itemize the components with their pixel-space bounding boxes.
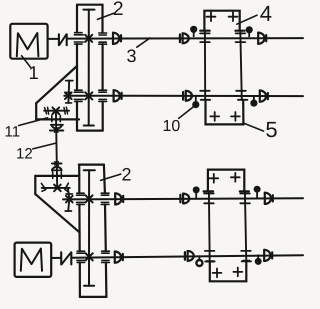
vertical shaft 12 xyxy=(56,111,57,188)
bevel joint X vertical shaft (lower) xyxy=(54,185,61,192)
bevel joint X lower shaft1st xyxy=(66,196,73,203)
motor M1 xyxy=(10,24,47,59)
label 12 xyxy=(16,143,56,162)
bevel cross shaft (upper) xyxy=(44,107,69,114)
svg-text:3: 3 xyxy=(127,46,137,66)
brake box 5 xyxy=(206,100,244,125)
pin ball B6 xyxy=(254,186,261,198)
overload clutch upper (bar + bowl + x-bar) xyxy=(50,125,63,133)
clutch C upper shaft2nd xyxy=(183,91,192,101)
brake box 4 xyxy=(200,11,244,31)
gear joint X lower gearbox shaft1st xyxy=(86,195,93,202)
bevel bracket (lower) xyxy=(35,176,79,233)
svg-text:2: 2 xyxy=(113,0,124,20)
label 3 xyxy=(127,38,151,66)
label 2 (upper) xyxy=(97,0,123,20)
gearbox 2 (upper) housing xyxy=(77,5,103,131)
coupling D lower shaft1st left xyxy=(115,193,123,204)
gear column right (upper unit) xyxy=(236,31,248,100)
wire shaft 2nd upper (output) xyxy=(64,95,303,97)
svg-text:10: 10 xyxy=(163,118,181,135)
wire motor1 shaft xyxy=(48,38,59,40)
label 10 xyxy=(163,106,195,135)
bearing upper-right wall shaft2nd xyxy=(99,90,107,101)
bearing upper-left wall shaft3 xyxy=(74,33,83,44)
svg-text:1: 1 xyxy=(29,62,39,83)
pin ball B5 xyxy=(193,186,200,197)
coupling D lower shaft2nd right xyxy=(264,250,272,261)
bearing upper-left wall shaft2nd xyxy=(74,90,83,101)
wire shaft 1st lower unit xyxy=(63,198,303,199)
coupling D upper shaft2nd right xyxy=(260,91,268,102)
wire motor2 shaft xyxy=(51,257,61,259)
svg-text:5: 5 xyxy=(265,117,277,142)
gear shaft vertical (upper gearbox center) xyxy=(83,10,94,126)
label 4 xyxy=(237,1,272,26)
gear column right (lower unit) xyxy=(240,191,251,261)
coupling D upper shaft2nd left (after gearbox) xyxy=(114,90,122,101)
coupling K1 xyxy=(59,34,67,45)
gear column left (lower unit) xyxy=(204,191,215,261)
gear column left (upper unit) xyxy=(200,31,210,100)
pin ball B1 xyxy=(190,26,197,37)
label 2 (lower) xyxy=(101,165,132,185)
svg-text:12: 12 xyxy=(16,145,33,162)
coupling D upper shaft3 right xyxy=(258,33,266,44)
coupling D lower shaft2nd left xyxy=(115,252,123,263)
bearing lower-right wall shaft1st xyxy=(101,193,109,204)
pin ball B7 xyxy=(196,256,202,266)
coupling K2 xyxy=(61,252,71,264)
bearing upper-right wall shaft3 xyxy=(99,33,107,44)
wire shaft 2nd lower unit xyxy=(72,255,304,257)
clutch C lower shaft2nd xyxy=(185,251,194,261)
bearing lower-right wall shaft2nd xyxy=(102,251,110,262)
clutch C lower shaft1st xyxy=(180,194,189,204)
pin ball B3 xyxy=(192,97,199,108)
plus marks box 5 xyxy=(210,112,240,121)
motor M2 xyxy=(15,243,52,277)
gear joint X upper gearbox shaft2nd xyxy=(85,92,92,99)
bevel joint X upper shaft2nd xyxy=(65,93,72,100)
plus marks box 4 xyxy=(207,12,238,21)
bevel cross shaft (lower) xyxy=(41,183,69,192)
coupling D upper shaft3 left xyxy=(113,33,121,44)
bevel bracket (upper) xyxy=(36,66,79,119)
overload clutch lower (x-bar + dome) xyxy=(52,162,62,171)
svg-text:11: 11 xyxy=(5,124,21,141)
label 1 xyxy=(22,56,39,83)
gear shaft vertical (lower gearbox center) xyxy=(84,170,95,285)
bearing lower-left wall shaft2nd xyxy=(77,251,86,262)
label 5 xyxy=(243,117,278,142)
pin ball B4 xyxy=(250,97,257,107)
pin ball B8 xyxy=(255,255,262,265)
bearing vertical shaft at bracket edge (upper) xyxy=(52,115,61,121)
clutch C upper shaft3 xyxy=(180,33,189,43)
plus marks box 7 xyxy=(213,268,243,278)
coupling D lower shaft1st right xyxy=(265,193,273,204)
bevel stub shaft (upper) xyxy=(65,81,73,103)
gear joint X upper gearbox shaft3 xyxy=(85,35,92,42)
bearing lower-left wall shaft1st xyxy=(77,193,86,204)
pin ball B2 xyxy=(246,26,253,36)
svg-text:4: 4 xyxy=(260,1,272,26)
plus marks box 6 xyxy=(209,173,239,183)
svg-text:2: 2 xyxy=(122,165,132,185)
bevel stub shaft (lower) xyxy=(65,188,72,211)
label 11 xyxy=(5,118,48,141)
wire shaft 3 (upper input shaft) xyxy=(67,37,303,40)
gear joint X lower gearbox shaft2nd xyxy=(86,253,93,260)
gearbox 2 (lower) housing xyxy=(79,165,107,297)
bevel joint X vertical shaft (upper) xyxy=(53,107,60,114)
brake box 6 xyxy=(204,170,249,192)
bearing vertical shaft at bracket edge (lower) xyxy=(53,172,62,179)
brake box 7 xyxy=(206,261,249,281)
